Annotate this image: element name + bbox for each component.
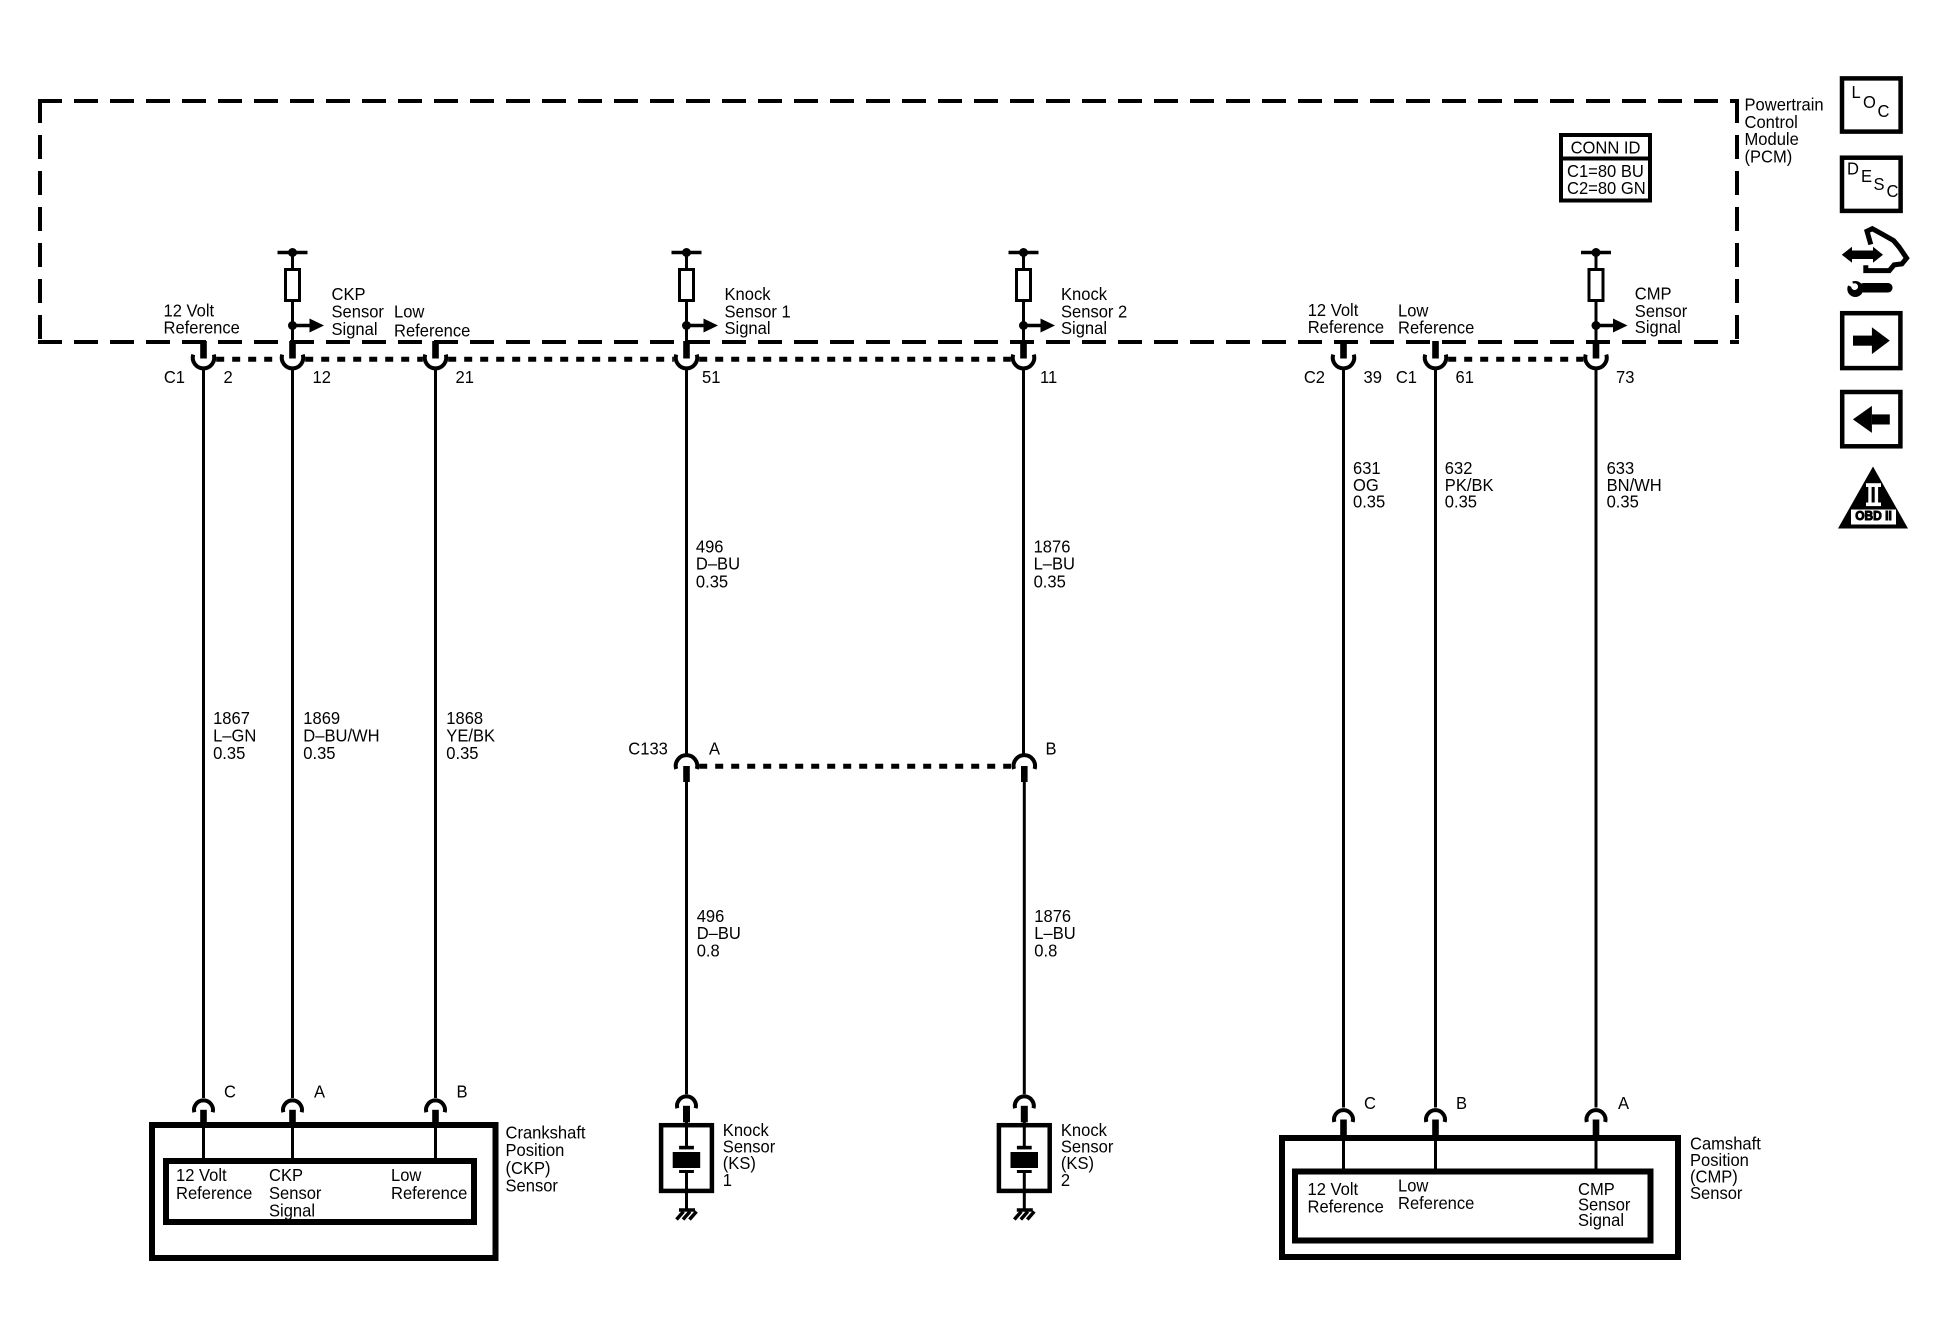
svg-text:2: 2 bbox=[224, 366, 233, 387]
Crankshaft Position (CKP) Sensor outer box bbox=[152, 1125, 496, 1258]
svg-text:0.35: 0.35 bbox=[1445, 491, 1477, 512]
connector C133 pin A bbox=[676, 755, 698, 782]
svg-text:0.35: 0.35 bbox=[213, 742, 245, 763]
Knock Sensor 1 ground bbox=[677, 1210, 697, 1220]
wire label 496 D–BU 0.35 bbox=[696, 536, 740, 592]
PCM connector pin 21 bbox=[425, 341, 474, 387]
svg-text:39: 39 bbox=[1364, 366, 1382, 387]
svg-text:C2=80 GN: C2=80 GN bbox=[1567, 178, 1646, 199]
CMP sensor connector pin B bbox=[1426, 1110, 1445, 1135]
PCM connector pin 2 bbox=[164, 341, 233, 387]
back arrow icon box bbox=[1842, 392, 1900, 446]
wire 633 BN/WH from PCM pin 73 to CMP pin A bbox=[1595, 369, 1598, 1108]
Knock Sensor 1 connector bbox=[677, 1096, 696, 1122]
svg-text:1: 1 bbox=[723, 1169, 732, 1190]
svg-text:0.8: 0.8 bbox=[1034, 940, 1057, 961]
svg-text:C: C bbox=[1878, 100, 1890, 121]
svg-text:0.35: 0.35 bbox=[696, 571, 728, 592]
CKP terminal labels bbox=[176, 1165, 467, 1221]
PCM connector pin 73 bbox=[1585, 341, 1634, 387]
signal name label at pin 11 bbox=[1061, 283, 1127, 338]
svg-text:B: B bbox=[457, 1081, 468, 1102]
svg-text:Signal: Signal bbox=[269, 1200, 315, 1221]
CMP sensor name label bbox=[1690, 1133, 1761, 1203]
svg-text:OBD II: OBD II bbox=[1855, 509, 1892, 524]
svg-text:A: A bbox=[709, 738, 720, 759]
signal name label at pin 2 bbox=[164, 300, 240, 338]
svg-text:0.35: 0.35 bbox=[303, 742, 335, 763]
svg-text:0.35: 0.35 bbox=[1034, 571, 1066, 592]
Knock Sensor 2 (KS) box bbox=[999, 1125, 1050, 1191]
svg-text:A: A bbox=[314, 1081, 325, 1102]
svg-text:21: 21 bbox=[456, 366, 474, 387]
svg-text:0.35: 0.35 bbox=[1607, 491, 1639, 512]
DESC icon box bbox=[1842, 158, 1901, 211]
CONN ID table bbox=[1559, 135, 1652, 201]
svg-text:Signal: Signal bbox=[1635, 316, 1681, 337]
Camshaft Position (CMP) Sensor outer box bbox=[1282, 1138, 1678, 1257]
wire 632 PK/BK from PCM pin 61 to CMP pin B bbox=[1434, 369, 1437, 1108]
signal name label at pin 73 bbox=[1635, 283, 1688, 337]
signal name label at pin 21 bbox=[394, 301, 470, 341]
svg-text:0.8: 0.8 bbox=[697, 940, 720, 961]
svg-text:D: D bbox=[1847, 158, 1859, 179]
svg-text:0.35: 0.35 bbox=[1353, 491, 1385, 512]
Knock Sensor 1 (KS) box bbox=[661, 1125, 712, 1191]
signal name label at pin 51 bbox=[725, 283, 791, 338]
wire 1867 L-GN from PCM pin 2 to CKP pin C bbox=[202, 369, 205, 1098]
PCM connector pin 61 bbox=[1396, 341, 1474, 387]
svg-text:Reference: Reference bbox=[176, 1182, 252, 1203]
svg-text:61: 61 bbox=[1456, 366, 1474, 387]
svg-text:Reference: Reference bbox=[1398, 1192, 1474, 1213]
wire label 1869 D–BU/WH 0.35 bbox=[303, 707, 379, 763]
Knock Sensor 1 label bbox=[723, 1119, 776, 1190]
svg-text:C: C bbox=[1887, 180, 1899, 201]
svg-text:S: S bbox=[1874, 173, 1885, 194]
CKP pin letters bbox=[224, 1081, 468, 1102]
C133 dotted connector line bbox=[699, 764, 1011, 769]
forward arrow icon box bbox=[1842, 313, 1900, 368]
wire label 1876 L–BU 0.35 bbox=[1034, 536, 1075, 592]
svg-text:Reference: Reference bbox=[164, 317, 240, 338]
svg-text:Reference: Reference bbox=[1398, 317, 1474, 338]
svg-text:(PCM): (PCM) bbox=[1745, 146, 1793, 167]
wire label 1868 YE/BK 0.35 bbox=[446, 707, 495, 763]
wire label 632 PK/BK 0.35 bbox=[1445, 457, 1494, 512]
svg-text:12: 12 bbox=[313, 366, 331, 387]
PCM connector pin 39 bbox=[1304, 341, 1382, 387]
CMP terminal labels bbox=[1308, 1175, 1631, 1230]
CKP sensor name label bbox=[506, 1122, 586, 1196]
svg-text:O: O bbox=[1863, 91, 1876, 112]
svg-text:0.35: 0.35 bbox=[446, 742, 478, 763]
wire 1876 L-BU from PCM pin 11 to C133 pin B bbox=[1022, 369, 1025, 754]
CMP sensor connector pin C bbox=[1334, 1110, 1353, 1135]
CKP sensor connector pin B bbox=[426, 1100, 445, 1123]
PCM internal resistor and signal arrow at pin 11 bbox=[1009, 248, 1056, 343]
wire label 633 BN/WH 0.35 bbox=[1607, 457, 1662, 512]
svg-text:C1: C1 bbox=[1396, 366, 1417, 387]
CKP sensor inner terminal box bbox=[166, 1161, 474, 1222]
svg-text:A: A bbox=[1618, 1092, 1629, 1113]
signal name label at pin 39 bbox=[1308, 299, 1384, 337]
wire 1876 L-BU from C133 pin B to Knock Sensor 2 bbox=[1023, 782, 1026, 1094]
svg-text:Signal: Signal bbox=[725, 318, 771, 339]
svg-text:C: C bbox=[1364, 1092, 1376, 1113]
svg-text:Sensor: Sensor bbox=[506, 1175, 559, 1196]
svg-text:Signal: Signal bbox=[1061, 318, 1107, 339]
wire 1869 D-BU/WH from PCM pin 12 to CKP pin A bbox=[291, 369, 294, 1098]
signal name label at pin 12 bbox=[332, 283, 385, 339]
CKP sensor connector pin A bbox=[283, 1100, 302, 1123]
Knock Sensor 2 piezo element bbox=[1011, 1122, 1039, 1210]
wire label 1867 L–GN 0.35 bbox=[213, 707, 256, 763]
svg-text:11: 11 bbox=[1040, 366, 1057, 387]
CMP pin letters bbox=[1364, 1092, 1629, 1113]
svg-text:Reference: Reference bbox=[391, 1182, 467, 1203]
Knock Sensor 2 connector bbox=[1015, 1096, 1034, 1122]
Powertrain Control Module (PCM) dashed boundary box bbox=[38, 99, 1739, 344]
svg-text:C2: C2 bbox=[1304, 366, 1325, 387]
PCM internal resistor and signal arrow at pin 73 bbox=[1581, 248, 1628, 343]
svg-text:Reference: Reference bbox=[1308, 316, 1384, 337]
CMP internal wires bbox=[1344, 1135, 1597, 1170]
PCM connector dotted line segments bbox=[216, 357, 1583, 362]
CKP internal wires bbox=[204, 1123, 436, 1160]
PCM connector pin 51 bbox=[676, 341, 721, 387]
svg-text:L: L bbox=[1852, 81, 1862, 102]
svg-text:B: B bbox=[1456, 1092, 1467, 1113]
Knock Sensor 2 ground bbox=[1014, 1210, 1034, 1220]
connector C133 pin B bbox=[1014, 755, 1036, 782]
CKP sensor connector pin C bbox=[194, 1100, 213, 1123]
PCM internal resistor and signal arrow at pin 12 bbox=[278, 248, 325, 343]
wire 1868 YE/BK from PCM pin 21 to CKP pin B bbox=[434, 369, 437, 1098]
wire 496 D-BU from C133 pin A to Knock Sensor 1 bbox=[685, 782, 688, 1094]
svg-text:Reference: Reference bbox=[1308, 1196, 1384, 1217]
svg-text:Signal: Signal bbox=[1578, 1209, 1624, 1230]
wire 631 OG from PCM pin 39 to CMP pin C bbox=[1342, 369, 1345, 1108]
svg-text:Low: Low bbox=[394, 301, 425, 322]
Knock Sensor 1 piezo element bbox=[673, 1122, 701, 1210]
PCM connector pin 11 bbox=[1013, 341, 1057, 387]
wire label 496 D–BU 0.8 bbox=[697, 905, 741, 960]
Knock Sensor 2 label bbox=[1061, 1119, 1114, 1190]
svg-text:B: B bbox=[1046, 738, 1057, 759]
PCM internal resistor and signal arrow at pin 51 bbox=[672, 248, 719, 343]
wire label 631 OG 0.35 bbox=[1353, 457, 1385, 512]
svg-text:CONN ID: CONN ID bbox=[1571, 137, 1641, 158]
signal name label at pin 61 bbox=[1398, 300, 1474, 338]
wire label 1876 L–BU 0.8 bbox=[1034, 905, 1075, 960]
LOC icon box bbox=[1842, 78, 1901, 131]
OBD II triangle icon bbox=[1838, 467, 1908, 529]
PCM label bbox=[1745, 94, 1824, 167]
svg-text:Signal: Signal bbox=[332, 318, 378, 339]
svg-text:51: 51 bbox=[702, 366, 720, 387]
wire 496 D-BU from PCM pin 51 to C133 pin A bbox=[685, 369, 688, 754]
C133 labels bbox=[628, 738, 1056, 759]
adjust/replace tool icon (double arrow, part outline, wrench) bbox=[1842, 229, 1907, 297]
svg-text:Sensor: Sensor bbox=[1690, 1182, 1743, 1203]
svg-text:2: 2 bbox=[1061, 1169, 1070, 1190]
CMP sensor inner terminal box bbox=[1295, 1172, 1651, 1241]
PCM connector pin 12 bbox=[282, 341, 331, 387]
svg-text:C133: C133 bbox=[628, 738, 668, 759]
svg-text:C: C bbox=[224, 1081, 236, 1102]
svg-text:73: 73 bbox=[1616, 366, 1634, 387]
CMP sensor connector pin A bbox=[1587, 1110, 1606, 1135]
svg-text:C1: C1 bbox=[164, 366, 185, 387]
svg-text:E: E bbox=[1861, 165, 1872, 186]
svg-text:Reference: Reference bbox=[394, 320, 470, 341]
